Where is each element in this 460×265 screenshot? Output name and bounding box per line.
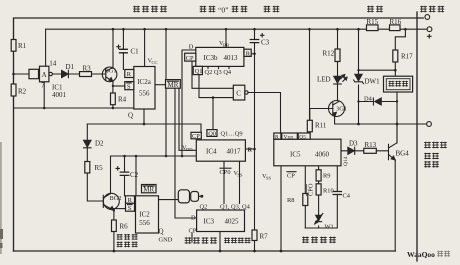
- svg-text:CP: CP: [189, 228, 197, 235]
- svg-text:556: 556: [139, 219, 150, 227]
- svg-text:D1: D1: [66, 63, 75, 71]
- svg-text:R: R: [127, 71, 132, 78]
- svg-text:4025: 4025: [225, 218, 240, 226]
- svg-text:BG1: BG1: [105, 68, 117, 75]
- svg-text:C3: C3: [261, 39, 270, 47]
- svg-text:R5: R5: [95, 164, 104, 172]
- svg-text:Q2 Q3 Q4: Q2 Q3 Q4: [205, 69, 232, 76]
- svg-text:DW1: DW1: [365, 78, 381, 86]
- svg-text:C4: C4: [343, 193, 351, 200]
- svg-text:4017: 4017: [227, 148, 242, 156]
- svg-text:“0”: “0”: [218, 6, 229, 15]
- svg-text:CP0: CP0: [220, 169, 231, 176]
- svg-text:DD: DD: [288, 135, 294, 140]
- svg-text:IC5: IC5: [290, 151, 301, 159]
- svg-text:BB: BB: [223, 43, 229, 48]
- svg-text:R12: R12: [323, 50, 335, 58]
- svg-text:C1: C1: [131, 48, 140, 56]
- svg-text:D4: D4: [364, 96, 373, 103]
- svg-text:R10: R10: [323, 188, 334, 195]
- svg-text:Q0: Q0: [208, 130, 216, 137]
- svg-text:S: S: [127, 83, 131, 90]
- svg-text:IC2: IC2: [139, 211, 150, 219]
- svg-text:R: R: [246, 50, 251, 57]
- svg-text:D: D: [189, 43, 194, 50]
- svg-text:LED: LED: [317, 76, 331, 84]
- svg-text:GND: GND: [159, 237, 173, 244]
- svg-text:S: S: [128, 205, 132, 212]
- svg-text:Q: Q: [159, 228, 164, 236]
- svg-text:MR: MR: [168, 81, 179, 89]
- svg-text:R: R: [275, 134, 279, 140]
- svg-text:CP: CP: [287, 173, 295, 180]
- svg-text:IC2a: IC2a: [137, 78, 152, 86]
- svg-text:SS: SS: [266, 176, 272, 181]
- svg-text:R2: R2: [18, 88, 27, 96]
- svg-text:R16: R16: [390, 18, 402, 26]
- svg-text:7: 7: [41, 82, 45, 90]
- svg-text:C2: C2: [130, 171, 139, 179]
- svg-text:Q1: Q1: [195, 68, 203, 75]
- svg-text:R11: R11: [315, 122, 327, 130]
- svg-text:CPO: CPO: [308, 183, 315, 196]
- svg-text:BG4: BG4: [396, 150, 410, 158]
- svg-text:D3: D3: [349, 140, 358, 148]
- svg-text:C: C: [236, 89, 241, 97]
- svg-text:R: R: [248, 147, 253, 154]
- svg-text:4001: 4001: [52, 91, 67, 99]
- svg-text:R1: R1: [18, 42, 27, 50]
- svg-text:R9: R9: [323, 173, 330, 180]
- svg-text:CP: CP: [192, 133, 200, 140]
- svg-text:R15: R15: [367, 18, 379, 26]
- svg-text:SS: SS: [238, 173, 244, 178]
- svg-text:W1: W1: [325, 224, 334, 231]
- svg-text:R17: R17: [401, 53, 413, 61]
- svg-text:CC: CC: [152, 60, 158, 65]
- svg-text:D: D: [191, 215, 196, 222]
- svg-text:4013: 4013: [224, 54, 239, 62]
- svg-text:WaaQoo: WaaQoo: [407, 250, 435, 259]
- svg-text:CP: CP: [186, 55, 194, 62]
- svg-text:Q2: Q2: [200, 204, 208, 211]
- svg-text:R6: R6: [120, 223, 129, 231]
- svg-text:IC3: IC3: [204, 218, 215, 226]
- svg-text:Q5: Q5: [299, 134, 306, 140]
- svg-text:IC4: IC4: [206, 148, 217, 156]
- svg-text:IC3b: IC3b: [204, 54, 219, 62]
- svg-text:A: A: [42, 71, 47, 79]
- svg-text:Q: Q: [128, 112, 133, 120]
- svg-text:Q1, Q3, Q4: Q1, Q3, Q4: [220, 204, 251, 211]
- svg-text:14: 14: [49, 60, 57, 68]
- svg-text:4060: 4060: [315, 151, 330, 159]
- svg-text:R: R: [128, 197, 133, 204]
- svg-text:DD: DD: [186, 147, 193, 152]
- svg-text:R7: R7: [260, 233, 269, 241]
- svg-text:D2: D2: [95, 140, 104, 148]
- svg-text:R3: R3: [83, 65, 92, 73]
- svg-text:556: 556: [139, 90, 150, 98]
- svg-text:Q1…Q9: Q1…Q9: [221, 130, 243, 137]
- svg-text:MR: MR: [143, 186, 154, 194]
- svg-text:R4: R4: [118, 96, 127, 104]
- svg-text:R13: R13: [365, 141, 377, 149]
- svg-text:BG2: BG2: [110, 195, 122, 202]
- svg-text:R8: R8: [287, 197, 294, 204]
- svg-text:Q14: Q14: [343, 156, 349, 166]
- svg-text:3G1: 3G1: [336, 106, 347, 113]
